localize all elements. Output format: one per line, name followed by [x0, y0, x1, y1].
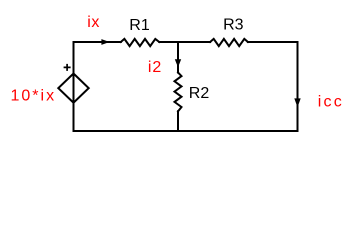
wire left branch (through source) [73, 42, 75, 131]
wire bottom segment [74, 130, 298, 132]
resistor R3 [210, 39, 248, 46]
resistor R1 [121, 39, 160, 46]
plus sign of source [64, 64, 71, 71]
svg-text:icc: icc [318, 94, 344, 111]
wire top-right segment [248, 41, 298, 43]
svg-text:R3: R3 [223, 16, 244, 33]
svg-text:R1: R1 [129, 17, 150, 34]
dependent source U1 diamond [58, 74, 88, 103]
wire right branch [297, 42, 299, 131]
arrow i2 (current direction) [175, 59, 181, 67]
wire top-left segment [74, 41, 121, 43]
wire top-middle segment [159, 41, 210, 43]
svg-text:ix: ix [87, 14, 100, 31]
svg-text:i2: i2 [148, 59, 162, 76]
arrow ix (current direction) [101, 39, 109, 45]
wire middle branch lower [177, 111, 179, 131]
resistor R2 [175, 73, 182, 112]
svg-text:10*ix: 10*ix [11, 88, 57, 105]
arrow icc (current direction) [294, 98, 300, 107]
wire middle branch upper [177, 42, 179, 73]
svg-text:R2: R2 [189, 85, 210, 102]
